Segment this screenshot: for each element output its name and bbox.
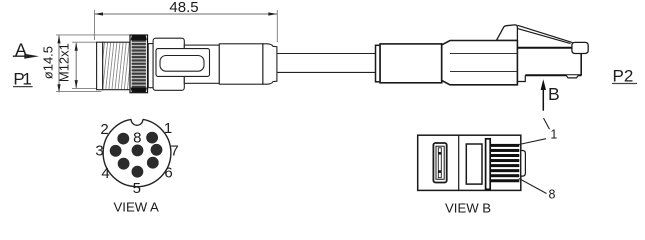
RJ45 latch arm wedge (518, 25, 573, 43)
dimension 48.5 extension line left (94, 10, 96, 40)
M12 step section (148, 44, 153, 88)
M12x1 top arrowhead (75, 42, 78, 50)
pin 2 dot (117, 133, 129, 145)
RJ45 contact strip 5 (490, 164, 519, 167)
label P1 underline (13, 86, 33, 88)
M12 connector front face ring (97, 42, 103, 89)
dimension 48.5 extension line right (276, 10, 278, 42)
RJ45 contact strip 3 (490, 154, 519, 157)
svg-text:7: 7 (170, 142, 178, 159)
pin 8 dot center (132, 145, 144, 157)
svg-text:2: 2 (100, 121, 108, 138)
svg-text:VIEW: VIEW (114, 200, 148, 215)
leader line to pin 1 (519, 139, 546, 145)
M12x1 bottom extension line (72, 87, 97, 89)
view arrow B shaft (542, 88, 544, 111)
svg-text:VIEW: VIEW (445, 200, 479, 215)
dimension line 48.5 (95, 13, 278, 15)
RJ45 latch handle tab (572, 42, 588, 53)
dia 14.5 top extension line (56, 34, 130, 36)
RJ45 bottom view latch slot outer (433, 143, 446, 183)
svg-text:B: B (482, 200, 491, 215)
pin 5 dot (132, 166, 144, 178)
svg-text:1: 1 (550, 127, 557, 141)
svg-text:ø14.5: ø14.5 (40, 46, 55, 79)
M12 knurled coupling ring (130, 35, 148, 93)
pin 6 dot (147, 157, 159, 169)
cable upper line (277, 53, 376, 55)
svg-text:1: 1 (164, 120, 172, 137)
dimension 48.5 left arrowhead (95, 12, 104, 15)
label P2 underline (612, 83, 637, 85)
dia 14.5 bottom extension line (56, 91, 101, 93)
svg-text:M12x1: M12x1 (57, 43, 72, 82)
RJ45 boot cylinder (380, 44, 442, 83)
RJ45 bottom-left step (517, 75, 525, 85)
RJ45 contact strip 7 (490, 174, 519, 177)
dimension line M12x1 (75, 43, 77, 88)
svg-text:3: 3 (95, 142, 103, 159)
M12 rear end cap (263, 44, 277, 84)
dia 14.5 bottom arrowhead (57, 84, 60, 92)
leader line to pin 8 (519, 179, 547, 194)
pin 4 dot (118, 158, 130, 170)
VIEW A circle body (103, 119, 171, 187)
leader segment above label 1 (544, 118, 550, 129)
M12 mid body section (184, 45, 219, 83)
RJ45 bottom view side bump (521, 151, 526, 177)
RJ45 bottom view middle window (466, 144, 482, 184)
RJ45 plug right edge (580, 54, 582, 76)
pin 3 dot (110, 145, 122, 157)
VIEW A keying notch (131, 113, 143, 125)
M12x1 top extension line (72, 41, 97, 43)
M12 latch inner window (160, 56, 204, 72)
section arrow A shaft (13, 55, 30, 57)
M12 body rounded section (153, 38, 184, 90)
pin 7 dot (151, 144, 163, 156)
RJ45 contact strip 6 (490, 169, 519, 172)
RJ45 contact strip 1 (490, 144, 519, 147)
pin 1 dot (146, 132, 158, 144)
RJ45 plug bottom edge (525, 74, 581, 76)
RJ45 overmold hump (497, 25, 518, 40)
RJ45 bottom view latch bar nub bottom (439, 170, 442, 173)
RJ45 bottom view divider line (458, 135, 460, 190)
view arrow B head (541, 79, 546, 90)
RJ45 bottom view contact bar (486, 139, 491, 190)
RJ45 contact strip 2 (490, 149, 519, 152)
RJ45 bottom view outer body (418, 135, 521, 190)
RJ45 boot flange (376, 45, 381, 82)
section arrow A head (24, 54, 39, 59)
svg-text:A: A (150, 200, 159, 215)
cable lower line (277, 71, 376, 73)
svg-text:8: 8 (133, 130, 141, 147)
svg-text:P1: P1 (13, 70, 32, 89)
RJ45 bottom view latch slot bar (438, 148, 441, 178)
svg-text:5: 5 (133, 180, 141, 197)
RJ45 plug nose top edge (518, 47, 572, 49)
svg-text:48.5: 48.5 (169, 0, 198, 16)
dimension line dia 14.5 (58, 35, 60, 92)
M12 rear body (219, 44, 263, 84)
RJ45 contact strip 8 (490, 179, 519, 182)
RJ45 bottom view latch bar nub top (439, 152, 442, 155)
svg-text:B: B (548, 84, 560, 104)
dia 14.5 top arrowhead (57, 35, 60, 43)
svg-text:4: 4 (101, 165, 109, 182)
svg-text:8: 8 (549, 188, 556, 202)
cable lines through collar (450, 54, 517, 72)
svg-text:P2: P2 (613, 67, 634, 86)
M12 thread section (103, 42, 131, 89)
M12 latch outer band (156, 49, 210, 77)
RJ45 contact strip 4 (490, 159, 519, 162)
RJ45 bottom view latch slot inner (436, 146, 444, 179)
svg-text:6: 6 (164, 164, 172, 181)
RJ45 collar with chamfered corners (442, 41, 518, 85)
dimension 48.5 right arrowhead (268, 12, 277, 15)
M12x1 bottom arrowhead (75, 80, 78, 88)
RJ45 contact window foot (566, 75, 579, 78)
